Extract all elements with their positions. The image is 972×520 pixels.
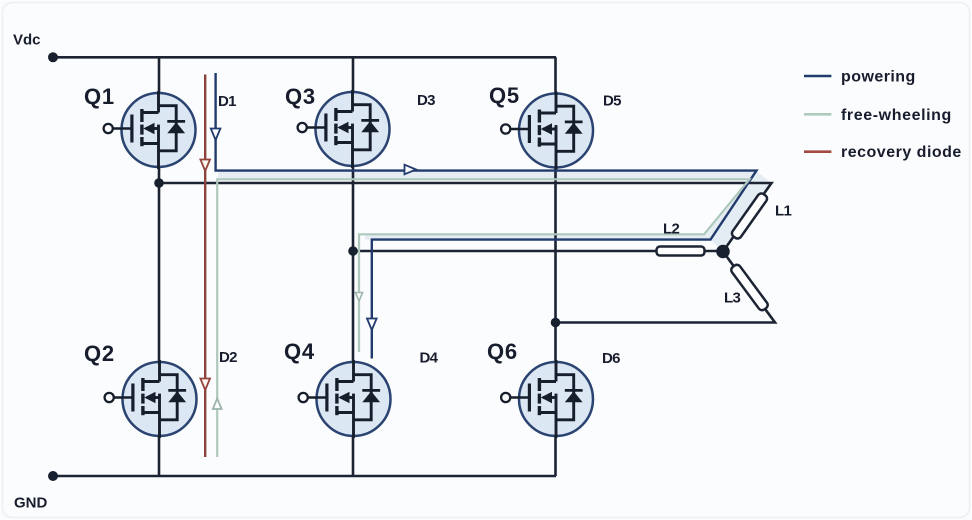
svg-text:Q5: Q5 (489, 83, 520, 108)
arrow: red down lower (200, 379, 210, 391)
svg-text:Q2: Q2 (84, 341, 115, 366)
transistor Q6 (501, 360, 593, 438)
svg-text:Vdc: Vdc (13, 32, 41, 49)
legend free-wheeling line (804, 113, 831, 116)
pale powering ribbon between navy and green runs (218, 171, 757, 240)
transistor Q1 (104, 91, 196, 169)
arrow: red down upper (200, 160, 210, 172)
svg-text:L3: L3 (724, 290, 740, 307)
wire: GND bottom rail (53, 475, 556, 478)
resistor L1 (730, 192, 768, 240)
arrow: navy down into Q4 (367, 319, 377, 331)
resistor L2 (657, 247, 705, 256)
transistor Q5 (501, 92, 593, 170)
wire: Vdc top rail (53, 56, 556, 59)
svg-text:D3: D3 (417, 92, 435, 109)
node: phase B junction (348, 246, 358, 256)
wire: phase B to load L2 (353, 250, 723, 253)
svg-text:Q1: Q1 (84, 84, 115, 109)
node: GND dot (48, 471, 58, 481)
svg-text:Q6: Q6 (487, 339, 518, 364)
resistor L3 (730, 263, 770, 312)
node: Vdc dot (48, 52, 58, 62)
svg-text:free-wheeling: free-wheeling (841, 107, 952, 124)
recovery diode path (red) (204, 75, 206, 458)
wire: phase C to load L3 (556, 252, 776, 323)
pale fill inside load-side hairpin V (711, 171, 772, 252)
svg-text:Q3: Q3 (285, 84, 316, 109)
svg-text:D6: D6 (602, 350, 620, 367)
svg-text:D5: D5 (603, 93, 621, 110)
wire: leg B vertical (352, 57, 355, 476)
transistor Q3 (298, 90, 390, 168)
node: star point (716, 245, 730, 259)
wire: leg C vertical (554, 57, 557, 476)
powering path (navy) phase A down + top run + diagonal + return + into Q4 (216, 73, 757, 359)
wire: phase A to load L1 (159, 183, 772, 252)
svg-text:recovery diode: recovery diode (841, 144, 962, 161)
arrow: navy right on phase A run (405, 165, 417, 175)
legend powering line (804, 75, 831, 78)
svg-text:GND: GND (14, 495, 48, 512)
arrow: green down small near Q4 (355, 293, 362, 302)
svg-text:L1: L1 (775, 203, 791, 220)
svg-text:D4: D4 (420, 350, 439, 367)
transistor Q2 (105, 360, 197, 438)
free-wheeling path (green) (217, 179, 749, 457)
arrow: navy down on D1 branch (211, 129, 221, 141)
svg-text:D1: D1 (218, 93, 236, 110)
svg-text:D2: D2 (219, 349, 237, 366)
node: phase C junction (551, 318, 561, 328)
svg-text:Q4: Q4 (284, 339, 315, 364)
node: phase A junction (154, 178, 164, 188)
svg-text:powering: powering (841, 69, 916, 86)
svg-text:L2: L2 (663, 221, 679, 238)
wire: leg A vertical (158, 57, 161, 476)
legend recovery diode line (804, 150, 831, 153)
transistor Q4 (299, 360, 391, 438)
arrow: green up on D2 branch (213, 399, 222, 410)
